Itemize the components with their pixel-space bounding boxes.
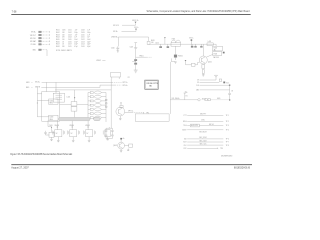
filter FL1: [88, 91, 106, 94]
small racetrack: [94, 117, 101, 120]
svg-text:R401: R401: [56, 30, 60, 32]
svg-text:SEC_SDO: SEC_SDO: [199, 140, 207, 142]
svg-text:UNSW B+: UNSW B+: [111, 37, 118, 39]
svg-text:SEC PTT: SEC PTT: [200, 114, 206, 116]
capacitor C427: [200, 44, 202, 47]
regulator cell 2: [68, 121, 80, 142]
interface frame box: [135, 114, 169, 121]
svg-text:10K: 10K: [62, 32, 65, 34]
varistor box below fuse: [171, 46, 183, 63]
signal line K4: [196, 89, 229, 92]
label output wire from Q402 area: [125, 111, 144, 114]
svg-text:TP 9: TP 9: [220, 148, 223, 150]
svg-text:5V: 5V: [197, 80, 199, 82]
svg-text:CLK: CLK: [184, 145, 187, 147]
svg-text:DE-ENERGIZED: DE-ENERGIZED: [221, 155, 233, 157]
svg-text:1uF: 1uF: [74, 37, 77, 39]
main supply wire: [149, 43, 217, 45]
right row group1 line1: [184, 114, 229, 117]
right row group2 line3: [184, 143, 229, 146]
option board box: [145, 80, 159, 89]
svg-text:C415: C415: [68, 46, 72, 48]
right row group1 line2: [183, 120, 229, 123]
svg-text:C421: C421: [130, 46, 134, 48]
wire from connector GND down: [46, 50, 48, 56]
svg-text:Q403: Q403: [113, 145, 117, 147]
bus line 2: [26, 84, 128, 89]
svg-text:MIC HI: MIC HI: [209, 124, 214, 126]
svg-text:3V: 3V: [197, 82, 199, 84]
svg-text:VR402: VR402: [96, 60, 101, 62]
svg-text:SW B+: SW B+: [31, 32, 36, 34]
svg-text:C404: C404: [68, 37, 72, 39]
svg-text:C414: C414: [81, 44, 85, 46]
svg-text:SW B+: SW B+: [189, 38, 194, 40]
svg-text:10uF: 10uF: [87, 39, 91, 41]
resistor R420: [147, 37, 155, 44]
base wire with resistor R421: [186, 63, 200, 67]
footer rule: [11, 164, 252, 166]
svg-text:C411: C411: [81, 37, 85, 39]
svg-text:Y401: Y401: [49, 125, 53, 127]
svg-text:VIP OUT: VIP OUT: [30, 35, 36, 37]
unplaced parts table: [56, 30, 91, 52]
net flag GND: [184, 91, 188, 99]
filter output rail: [105, 93, 107, 123]
capacitor C426: [194, 44, 196, 47]
svg-text:F402: F402: [214, 48, 218, 50]
svg-text:GRN: GRN: [26, 82, 29, 84]
svg-text:5V: 5V: [56, 133, 58, 135]
junction dot bus drop C: [37, 103, 38, 104]
svg-text:FROM OPTN: FROM OPTN: [147, 83, 159, 85]
right row group1 line3 with boxed label: [183, 124, 229, 127]
svg-text:C405: C405: [68, 39, 72, 41]
regulator cell 1: [53, 121, 65, 142]
svg-text:FSY: FSY: [184, 148, 187, 150]
signal line K2: [197, 79, 230, 84]
svg-text:BUSY: BUSY: [182, 130, 186, 132]
svg-text:L402: L402: [67, 96, 71, 98]
relay K401: [171, 39, 181, 47]
module box M1: [213, 46, 223, 51]
svg-text:C401: C401: [68, 30, 72, 32]
svg-text:5V: 5V: [71, 133, 73, 135]
svg-text:Figure 7-46. HUD4022A/HUD4025B: Figure 7-46. HUD4022A/HUD4025B Secure In…: [10, 153, 73, 156]
net flag SW B+: [134, 27, 139, 31]
capacitor C420 with ground: [111, 46, 119, 52]
svg-text:C406: C406: [68, 41, 72, 43]
svg-text:R402: R402: [56, 32, 60, 34]
svg-text:SW B+: SW B+: [113, 31, 118, 33]
svg-text:22pF: 22pF: [74, 41, 78, 43]
net flag at C421 chain: [134, 43, 137, 48]
svg-text:5V: 5V: [86, 133, 88, 135]
net flag UNSW B+: [132, 20, 139, 25]
svg-text:1uF: 1uF: [87, 37, 90, 39]
svg-text:7-58: 7-58: [12, 10, 17, 13]
svg-text:=: =: [32, 82, 33, 84]
svg-text:C407: C407: [68, 44, 72, 46]
svg-text:R408: R408: [56, 46, 60, 48]
svg-text:100: 100: [62, 39, 65, 41]
filter pair U404: [60, 90, 89, 118]
bus line 3: [55, 89, 111, 91]
svg-text:R406: R406: [56, 41, 60, 43]
connector shell top: [111, 73, 121, 80]
svg-text:U402: U402: [50, 100, 54, 102]
ground under RV402: [134, 70, 138, 73]
right row group1 line4: [182, 130, 229, 134]
svg-text:R404: R404: [56, 37, 60, 39]
wire drop to box: [215, 44, 217, 46]
svg-text:August 27, 2007: August 27, 2007: [11, 167, 29, 170]
svg-text:U403: U403: [50, 117, 54, 119]
svg-text:22pF: 22pF: [74, 44, 78, 46]
signal line K3: [196, 85, 230, 87]
power flag at fuse: [164, 37, 166, 44]
svg-text:6816532H01-B: 6816532H01-B: [234, 167, 250, 170]
svg-text:330: 330: [62, 46, 65, 48]
svg-text:10K: 10K: [62, 34, 65, 36]
filter FL4: [88, 104, 106, 107]
signal line K1: [197, 75, 217, 82]
filter FL5: [88, 108, 106, 111]
resistor R430: [125, 144, 133, 151]
right row group2 line2: [183, 140, 229, 143]
svg-text:TP 7: TP 7: [226, 142, 229, 144]
transistor Q404: [116, 102, 125, 120]
connector J2 pin rows: [30, 31, 50, 52]
svg-text:C410: C410: [81, 34, 85, 36]
filter FL6: [88, 112, 106, 115]
bus line 1: [26, 82, 128, 85]
capacitor C423: [167, 44, 170, 48]
flag at diode: [185, 60, 187, 65]
svg-text:1K: 1K: [62, 41, 64, 43]
svg-text:47K: 47K: [62, 37, 65, 39]
transistor Q403: [113, 140, 124, 153]
wire to flag1: [122, 24, 136, 26]
svg-text:SW 9.1V: SW 9.1V: [113, 25, 119, 27]
svg-text:TP401: TP401: [139, 55, 144, 57]
svg-text:TP 3: TP 3: [226, 125, 229, 127]
crystal drop from shield block: [48, 121, 52, 127]
svg-text:.1uF: .1uF: [74, 30, 77, 32]
svg-text:F403: F403: [214, 53, 218, 55]
svg-text:TP 2: TP 2: [226, 121, 229, 123]
svg-text:Q401: Q401: [208, 61, 212, 63]
capacitor C422: [155, 42, 162, 47]
svg-text:47pF: 47pF: [74, 46, 78, 48]
right row group2 line1: [184, 137, 229, 140]
bus drop A: [46, 82, 48, 91]
svg-text:C413: C413: [81, 41, 85, 43]
svg-text:SEC_SDIO: SEC_SDIO: [199, 137, 207, 139]
long vertical rail: [110, 79, 112, 129]
module box M2: [213, 52, 222, 56]
svg-text:R405: R405: [56, 39, 60, 41]
svg-text:100K: 100K: [62, 30, 66, 32]
wire row 3: [118, 36, 148, 38]
racetrack shield outline: [59, 117, 91, 120]
svg-text:100p: 100p: [87, 32, 91, 34]
block B filter: [53, 93, 64, 102]
svg-text:1K: 1K: [62, 44, 64, 46]
svg-text:TP 4: TP 4: [226, 130, 229, 132]
net dot at Q403: [120, 137, 124, 140]
svg-text:OPT B+: OPT B+: [122, 82, 127, 84]
svg-text:10uF: 10uF: [74, 39, 78, 41]
regulator cell 4 partial: [103, 130, 110, 140]
svg-text:100: 100: [151, 42, 154, 44]
svg-text:100p: 100p: [74, 32, 78, 34]
svg-text:.1uF: .1uF: [87, 30, 90, 32]
svg-text:22pF: 22pF: [87, 41, 91, 43]
svg-text:.1uF: .1uF: [74, 34, 77, 36]
bus drop C: [36, 87, 38, 116]
capacitor bridge C440-C443: [105, 127, 114, 139]
svg-text:C9: C9: [231, 91, 233, 93]
svg-text:C412: C412: [81, 39, 85, 41]
svg-text:C408: C408: [81, 30, 85, 32]
svg-text:R420: R420: [151, 40, 155, 42]
svg-text:TP 8: TP 8: [226, 145, 229, 147]
svg-text:22pF: 22pF: [87, 44, 91, 46]
svg-text:P2: P2: [128, 77, 130, 79]
resistor R422 with ground: [202, 64, 205, 76]
header rule: [11, 14, 250, 16]
branch wire TP401: [136, 55, 152, 57]
rail down to C420: [117, 37, 119, 46]
svg-text:C402: C402: [68, 32, 72, 34]
filter FL2: [88, 95, 106, 98]
bus drop B: [55, 82, 57, 93]
right row group2 line4: [184, 148, 224, 151]
svg-text:=: =: [32, 87, 33, 89]
svg-text:Schematics, Component Location: Schematics, Component Location Diagrams,…: [147, 10, 251, 13]
filter input rail: [87, 93, 89, 118]
svg-text:SW_B+: SW_B+: [35, 82, 40, 84]
svg-text:C416: C416: [81, 46, 85, 48]
svg-text:R403: R403: [56, 34, 60, 36]
wire to flag2: [122, 30, 137, 32]
svg-text:CLK: CLK: [196, 85, 199, 87]
ground lead left: [169, 62, 171, 114]
svg-text:RV401: RV401: [178, 56, 183, 58]
transistor Q401: [199, 44, 212, 64]
rail pads: [105, 99, 107, 107]
svg-text:C422: C422: [155, 42, 159, 44]
filter FL3: [88, 99, 106, 102]
svg-text:SEC BUSY: SEC BUSY: [199, 131, 207, 133]
svg-text:IGNITN: IGNITN: [35, 87, 40, 89]
audio wire: [170, 97, 229, 101]
capacitor C421: [130, 46, 138, 59]
svg-text:C409: C409: [81, 32, 85, 34]
svg-text:C420: C420: [111, 47, 115, 49]
svg-text:R407: R407: [56, 44, 60, 46]
net label B+ with dot: [189, 38, 194, 46]
svg-text:TP 6: TP 6: [226, 139, 229, 141]
svg-text:TP 1: TP 1: [226, 115, 229, 117]
varistor RV402: [132, 59, 137, 70]
svg-text:TP5: TP5: [146, 112, 149, 114]
shield block U402: [37, 92, 59, 122]
svg-text:E1: E1: [186, 95, 188, 97]
svg-text:47pF: 47pF: [87, 46, 91, 48]
capacitor C430: [228, 85, 233, 101]
svg-text:.1uF: .1uF: [87, 34, 90, 36]
capacitor C425: [191, 44, 194, 47]
svg-text:C403: C403: [68, 34, 72, 36]
crystal circuit Y401: [44, 125, 54, 141]
svg-text:F401: F401: [172, 39, 176, 41]
inductor L401 on wire: [207, 41, 213, 45]
svg-text:CS SEL: CS SEL: [30, 44, 36, 46]
svg-text:SPI CLK: SPI CLK: [30, 38, 36, 40]
net dot right of module: [223, 52, 225, 54]
filter FL7: [88, 116, 106, 119]
svg-text:SEC_CLK: SEC_CLK: [200, 143, 207, 145]
regulator cell 3: [84, 121, 96, 142]
svg-text:PTT: PTT: [184, 115, 187, 117]
